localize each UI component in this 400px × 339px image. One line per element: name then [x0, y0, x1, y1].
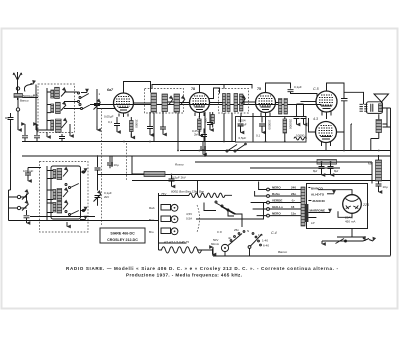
- svg-text:25000: 25000: [135, 120, 139, 129]
- transformer feed wire: [344, 92, 364, 104]
- svg-text:0,5A: 0,5A: [186, 217, 192, 221]
- lamp wires: [213, 251, 225, 256]
- wire 75 cathode down: [265, 117, 267, 142]
- voltage tap row GIALLO 160: [267, 205, 301, 210]
- ground below tuning cap: [96, 126, 98, 130]
- wire antenna cap to coil box: [23, 97, 39, 99]
- svg-text:SIARE 466-DC: SIARE 466-DC: [110, 232, 135, 236]
- band switch S1b: [64, 104, 90, 110]
- RF input coil box (dashed): [38, 84, 75, 133]
- cap+ground below rail: [169, 175, 175, 187]
- svg-text:Rosso: Rosso: [175, 163, 184, 167]
- tube 75: [256, 87, 276, 117]
- osc band switch S2b: [65, 209, 86, 219]
- wave switch C.4: [247, 229, 277, 248]
- svg-text:1-40: 1-40: [262, 239, 268, 243]
- svg-text:N: N: [247, 229, 249, 233]
- left vertical wires into bottom: [9, 126, 11, 190]
- wire IF1 to 78 grid: [168, 101, 190, 104]
- oscillator padder cap: [95, 156, 101, 175]
- filter cap 8uF b: [328, 162, 339, 175]
- diode load resistor R5: [279, 99, 282, 115]
- main rail y153: [22, 155, 391, 157]
- grid network box: [236, 117, 307, 143]
- svg-text:Produzione 1937. - Media frequ: Produzione 1937. - Media frequenza: 465 …: [126, 273, 242, 278]
- volume potentiometer 250000: [283, 117, 293, 143]
- svg-text:4.3: 4.3: [313, 117, 318, 121]
- svg-text:0,1: 0,1: [108, 120, 113, 124]
- lead BIANCO: [308, 187, 323, 191]
- svg-text:75V: 75V: [161, 192, 166, 196]
- padder cap 2: [107, 156, 119, 168]
- vertical drops to rails: [204, 112, 206, 156]
- svg-text:•RANCIO: •RANCIO: [312, 199, 326, 203]
- grid terminal arrow: [81, 92, 87, 94]
- wire right caps area: [351, 108, 391, 151]
- wire right rails to power box: [371, 162, 373, 184]
- svg-text:-1•: -1•: [291, 199, 295, 203]
- svg-text:600Ω Ban Ban 13kn Ban: 600Ω Ban Ban 13kn Ban: [171, 190, 204, 194]
- rail y162: [195, 161, 372, 163]
- svg-text:75: 75: [257, 87, 261, 91]
- rail y180: [132, 180, 391, 182]
- SIARE model box: [100, 228, 145, 243]
- svg-text:100000: 100000: [268, 120, 272, 130]
- 43 plate top loop to coupling cap: [327, 83, 345, 98]
- rectifier tube 225: [343, 195, 369, 224]
- band switch S1a: [64, 92, 89, 103]
- svg-text:LP: LP: [311, 221, 315, 225]
- svg-text:Bro: Bro: [149, 230, 154, 234]
- diode load resistor R6: [284, 99, 287, 115]
- wire field coil bottom: [371, 139, 379, 151]
- socket labels: [186, 205, 200, 232]
- wire lower 43 connections: [309, 118, 345, 137]
- rail y168 partial: [250, 167, 340, 169]
- svg-text:Bianco: Bianco: [278, 250, 288, 254]
- speaker cone: [374, 94, 389, 103]
- detector caps labels: [238, 119, 247, 127]
- autotransformer winding: [301, 187, 308, 226]
- filter resistor 8+8: [313, 160, 341, 165]
- lead ARANCIO: [308, 199, 325, 203]
- IF transformer 2 (dashed box): [219, 89, 249, 114]
- ballast resistor wavy: [159, 247, 205, 253]
- tap wires left: [251, 182, 267, 216]
- rectifier wires: [308, 190, 352, 218]
- voltage tap row VERDE 180: [267, 199, 301, 204]
- IF2 trimmer: [241, 99, 246, 105]
- IF1 trimmers: [169, 99, 174, 105]
- socket panel bottom: [159, 242, 187, 244]
- tube 43 output: [313, 87, 337, 117]
- svg-text:60mA: 60mA: [211, 242, 219, 246]
- choke MA: [368, 155, 382, 184]
- svg-text:R1: R1: [5, 116, 9, 120]
- tuning capacitor C.B: [94, 89, 101, 130]
- svg-text:CROSLEY 212-DC: CROSLEY 212-DC: [107, 238, 138, 242]
- padder trimmer mid: [94, 175, 112, 206]
- grid cap 100uuF: [23, 168, 41, 182]
- resistor 50000 box: [144, 172, 165, 177]
- antenna down wire join: [17, 129, 19, 131]
- power box frame: [307, 184, 368, 229]
- pilot socket 1: [149, 204, 178, 211]
- step wire to ladder: [196, 203, 264, 220]
- hook terminal C.A: [20, 84, 38, 103]
- cathode resistor under 6A7: [130, 117, 139, 138]
- switch on B+ rail: [226, 143, 246, 152]
- lead ALIMENTAZ: [311, 193, 334, 197]
- osc tuning trimmer 2: [17, 204, 28, 211]
- svg-text:C.4: C.4: [271, 231, 277, 235]
- svg-text:16: 16: [291, 205, 295, 209]
- svg-text:NERO: NERO: [272, 212, 281, 216]
- rail y216 partial: [30, 216, 95, 218]
- svg-text:VERDE: VERDE: [272, 199, 282, 203]
- svg-text:2kV: 2kV: [104, 195, 109, 199]
- cathode capacitor under 6A7: [108, 117, 120, 132]
- wire 43 cathodes to rails: [326, 117, 344, 151]
- lead MARRONE: [309, 209, 331, 213]
- osc trimmers: [63, 171, 68, 177]
- tone switch arc contacts: [228, 228, 245, 246]
- cap in network 1: [238, 117, 244, 133]
- IF1 secondary: [162, 94, 168, 112]
- mains switch bottom: [322, 237, 373, 244]
- svg-text:C.6: C.6: [217, 230, 222, 234]
- svg-text:0,05µF: 0,05µF: [104, 115, 114, 119]
- tube 6A7: [107, 88, 134, 117]
- antenna coupling capacitor C1: [14, 87, 35, 130]
- osc band switch S2a: [65, 171, 86, 189]
- ground below input coil box: [46, 132, 48, 137]
- wire 6A7 plate to IF1: [134, 102, 152, 104]
- voltage tap row ROSSO 220: [267, 192, 301, 197]
- IF2 secondary pair: [234, 94, 238, 112]
- vertical dashed shaft line: [126, 143, 128, 180]
- voltage tap row NERO 110: [267, 212, 301, 217]
- svg-text:10µ: 10µ: [114, 163, 119, 167]
- wire 78 plate to IF2: [209, 88, 223, 103]
- rail cap x62: [59, 134, 65, 142]
- line cord wavy resistor: [189, 193, 232, 197]
- left edge wire: [9, 190, 18, 221]
- svg-text:25n: 25n: [234, 228, 239, 232]
- svg-text:450 mA: 450 mA: [345, 220, 355, 224]
- svg-text:MARRONE: MARRONE: [310, 209, 326, 213]
- coupling capacitor top C11: [341, 99, 348, 125]
- bypass cap x210: [207, 112, 213, 130]
- cap ground x203: [200, 142, 206, 155]
- RF coil L1: [51, 87, 60, 98]
- IF2 primary pair: [223, 94, 226, 112]
- svg-text:0,5µF: 0,5µF: [239, 136, 247, 140]
- top IF screen wire: [152, 85, 252, 93]
- antenna: [13, 72, 22, 100]
- bottom rail y220: [9, 220, 159, 222]
- osc tuning trimmer 1: [17, 193, 28, 202]
- mains cord wires: [337, 229, 365, 242]
- svg-text:10µ: 10µ: [383, 185, 388, 189]
- svg-text:RADIO SIARE. — Modelli « Siare: RADIO SIARE. — Modelli « Siare 406 D. C.…: [66, 266, 338, 271]
- caps right of network with grounds: [294, 104, 307, 125]
- svg-text:6-40: 6-40: [263, 244, 269, 248]
- rail caps top-left x25: [22, 124, 28, 142]
- RF coil L3: [51, 119, 61, 132]
- IF transformer 1 (dashed box): [145, 89, 184, 114]
- voltage tap row NERO 240: [267, 186, 301, 191]
- bottom rail right: [213, 255, 391, 257]
- grid wire loop to 6A7 top: [124, 82, 151, 94]
- wire grid network to 43: [301, 101, 317, 103]
- output transformer + driver: [360, 102, 383, 114]
- wires coil box left: [36, 85, 51, 131]
- line switch contacts: [198, 181, 243, 228]
- wire switch to grid: [90, 104, 322, 106]
- svg-text:8µf: 8µf: [313, 169, 317, 173]
- IF1 primary: [151, 93, 157, 112]
- svg-text:4,5V: 4,5V: [186, 212, 192, 216]
- oscillator coil box dashed: [40, 162, 89, 233]
- ballast ground: [212, 249, 214, 255]
- svg-text:ALI•E•TO: ALI•E•TO: [311, 193, 325, 197]
- svg-text:RoSo: RoSo: [272, 192, 280, 196]
- svg-text:4n: 4n: [228, 236, 232, 240]
- osc box left wires: [47, 166, 53, 221]
- bottom cap of osc: [24, 210, 30, 223]
- wires output right: [382, 108, 391, 256]
- wire 75 grid left cap: [244, 97, 253, 142]
- bypass cap x163: [160, 112, 166, 135]
- svg-text:Rab: Rab: [149, 206, 155, 210]
- svg-text:GIALLo: GIALLo: [272, 205, 283, 209]
- svg-text:240: 240: [291, 186, 296, 190]
- svg-text:250000: 250000: [289, 119, 293, 129]
- pilot socket 3: [149, 228, 178, 235]
- svg-text:Ban: Ban: [149, 218, 155, 222]
- wires left drop to 50000: [112, 156, 144, 174]
- filter cap 8uF a: [313, 162, 325, 175]
- trimmer arrows on L1 L2 L3: [61, 91, 66, 97]
- pilot lamp: [211, 230, 229, 252]
- tube 43 lower: [313, 117, 337, 148]
- IF1 third winding: [174, 94, 180, 112]
- osc coil L4: [53, 169, 62, 180]
- wire IF2 to 75: [243, 101, 255, 103]
- svg-text:NERO: NERO: [272, 186, 281, 190]
- svg-text:Banco: Banco: [20, 99, 29, 103]
- cap in network 2: [256, 117, 265, 138]
- ground on bottom rail left: [66, 222, 68, 227]
- speaker field coil: [376, 114, 387, 138]
- wire 75 plate right: [266, 83, 291, 103]
- svg-text:8µf: 8µf: [334, 169, 338, 173]
- svg-text:300: 300: [204, 118, 208, 123]
- main rail y141.5: [22, 141, 235, 143]
- cathode resistor 78 b: [211, 115, 214, 124]
- screen feed verticals: [154, 113, 241, 151]
- rail y174: [97, 174, 372, 176]
- cathode resistor under 78: [198, 116, 208, 136]
- RF coil L2: [51, 102, 60, 113]
- oscillator grid wire: [97, 108, 115, 110]
- svg-text:6a7: 6a7: [107, 88, 114, 92]
- svg-text:13n: 13n: [258, 233, 263, 237]
- ground x70 below box: [69, 130, 71, 136]
- oscillator inner can: [51, 166, 81, 219]
- svg-text:23o: 23o: [291, 192, 296, 196]
- osc coil L6: [53, 202, 62, 214]
- capacitor R1 left: [5, 113, 14, 153]
- pilot socket 2: [149, 216, 178, 223]
- svg-text:C.5: C.5: [313, 87, 319, 91]
- vertical dashed gang line: [101, 108, 103, 225]
- svg-text:0,1: 0,1: [256, 134, 261, 138]
- socket panel frame: [159, 193, 190, 243]
- screen bypass cap under IF1: [147, 112, 153, 135]
- svg-text:0,1µF: 0,1µF: [294, 85, 302, 89]
- capacitor 0,25uF 2kV: [192, 129, 207, 142]
- coupling cap C10: [288, 85, 318, 98]
- svg-text:11o: 11o: [291, 212, 296, 216]
- svg-text:C.A: C.A: [33, 93, 38, 97]
- svg-text:78: 78: [191, 87, 195, 91]
- svg-text:2kV: 2kV: [194, 133, 199, 137]
- tone cap wavy resistor: [294, 137, 307, 140]
- tube 78: [190, 87, 210, 117]
- main rail y147: [180, 150, 391, 152]
- svg-text:225: 225: [362, 203, 369, 207]
- cap 10uF right: [376, 184, 388, 192]
- rail cap x37: [34, 124, 40, 142]
- osc coil L5: [53, 189, 62, 201]
